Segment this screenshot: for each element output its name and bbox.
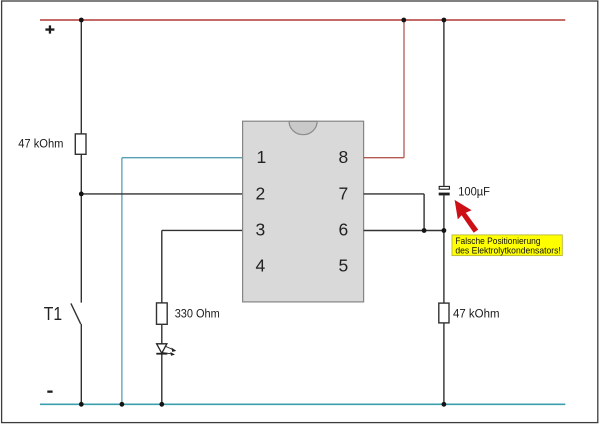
svg-text:100µF: 100µF (458, 185, 490, 199)
svg-text:47 kOhm: 47 kOhm (18, 136, 63, 150)
wire pin2 horizontal (81, 193, 242, 195)
svg-text:6: 6 (339, 219, 349, 239)
wire capacitor branch upper (443, 20, 445, 186)
resistor R3 47 kOhm right (439, 303, 449, 323)
wire pin7 horizontal (364, 193, 425, 195)
wire left vertical from V+ to switch (80, 20, 82, 303)
svg-text:des Elektrolytkondensators!: des Elektrolytkondensators! (455, 245, 560, 256)
svg-text:330 Ohm: 330 Ohm (175, 307, 220, 321)
capacitor C1 plates (439, 186, 449, 189)
callout label yellow box (452, 235, 562, 256)
svg-text:3: 3 (256, 219, 266, 239)
wire switch to GND rail (80, 324, 82, 404)
node dot V+/left wire (79, 18, 84, 23)
node GND rail (blue) (40, 403, 565, 405)
node dot pin6/cap branch (442, 228, 447, 233)
label + (45, 25, 54, 33)
wire capacitor branch lower (443, 195, 445, 404)
node dot pin7/pin6 (422, 228, 427, 233)
wire blue pin1 vertical (121, 158, 123, 405)
wire pin8 red vertical to V+ (403, 20, 405, 158)
label - (47, 391, 52, 393)
svg-text:2: 2 (256, 183, 266, 203)
wire pin8 red horizontal (364, 157, 404, 159)
wire pin7 vertical down (423, 194, 425, 231)
resistor R2 330 Ohm (157, 303, 168, 324)
node dot GND/switch wire (79, 402, 84, 407)
LED D1 (156, 344, 176, 356)
node dot pin2/left wire (79, 192, 84, 197)
callout arrow red (455, 200, 479, 233)
wire pin3 horizontal (162, 229, 243, 231)
wire blue pin1 horizontal (122, 157, 243, 159)
wire pin3 vertical branch to LED (161, 230, 163, 404)
node dot GND/blue wire (120, 402, 125, 407)
svg-text:7: 7 (339, 183, 349, 203)
node dot V+/pin8 wire (401, 18, 406, 23)
wire pin6 horizontal (364, 230, 444, 232)
svg-text:5: 5 (339, 256, 349, 276)
svg-text:47 kOhm: 47 kOhm (453, 307, 500, 321)
svg-text:T1: T1 (44, 304, 62, 324)
resistor R left 47 kOhm (75, 134, 86, 154)
svg-text:8: 8 (339, 147, 349, 167)
node dot GND/cap branch (442, 402, 447, 407)
node V+ rail (red) (40, 19, 565, 21)
IC notch (289, 121, 317, 134)
switch T1 lever (71, 303, 81, 324)
svg-text:4: 4 (256, 256, 266, 276)
op-amp IC U1 body (243, 121, 364, 302)
node dot GND/LED wire (159, 402, 164, 407)
svg-text:1: 1 (257, 147, 267, 167)
node dot V+/cap branch (442, 18, 447, 23)
